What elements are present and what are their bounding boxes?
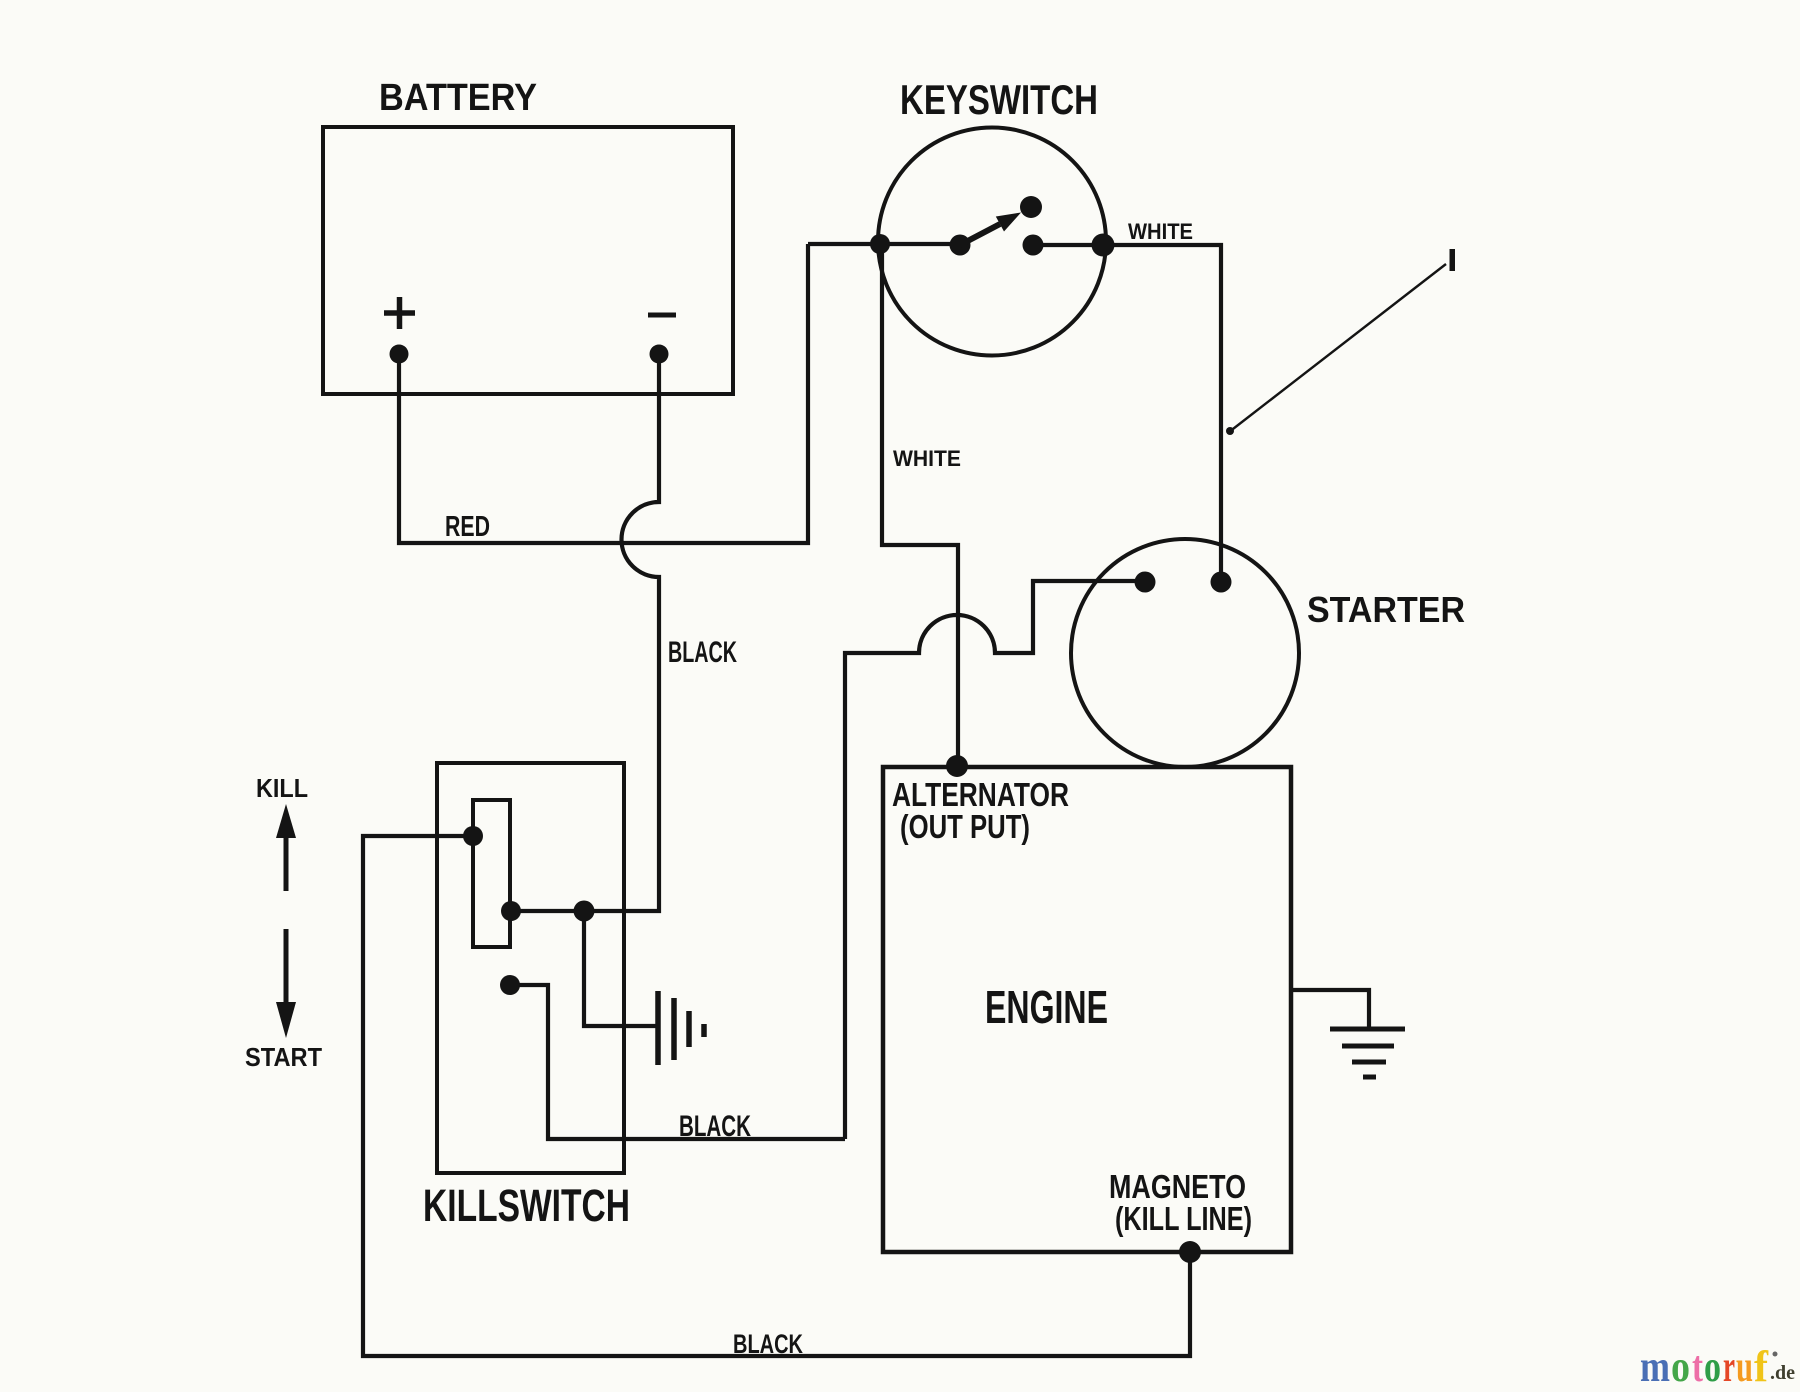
- label ENGINE: [985, 981, 1108, 1033]
- wire keyswitch right to starter terminal (WHITE): [1033, 245, 1221, 582]
- label RED: [445, 511, 490, 543]
- svg-text:KILLSWITCH: KILLSWITCH: [423, 1180, 630, 1231]
- killswitch inner contact rectangle: [473, 800, 510, 947]
- battery minus symbol: [648, 313, 676, 318]
- wire BLACK battery- to killswitch (hops over red wire): [511, 354, 659, 911]
- starter M1 circle: [1071, 539, 1299, 767]
- label WHITE (middle): [893, 446, 961, 471]
- keyswitch contact node pivot: [950, 235, 971, 256]
- wire WHITE keyswitch to alternator output: [882, 244, 958, 766]
- wire RED battery+ to keyswitch: [399, 244, 808, 543]
- svg-text:BATTERY: BATTERY: [379, 77, 537, 119]
- ground (engine, earth symbol): [1330, 1029, 1405, 1077]
- battery positive terminal node: [390, 345, 409, 364]
- svg-text:(OUT PUT): (OUT PUT): [900, 808, 1030, 845]
- starter terminal node left: [1135, 572, 1156, 593]
- svg-text:WHITE: WHITE: [1128, 219, 1193, 244]
- svg-text:o: o: [1704, 1342, 1721, 1391]
- label BLACK (middle): [679, 1110, 751, 1143]
- label I: [1450, 249, 1456, 271]
- wire BLACK magneto to killswitch (bottom run): [363, 836, 1190, 1356]
- magneto kill terminal node: [1179, 1241, 1201, 1263]
- svg-text:WHITE: WHITE: [893, 446, 961, 471]
- label MAGNETO: [1109, 1168, 1246, 1205]
- svg-text:STARTER: STARTER: [1307, 589, 1465, 630]
- keyswitch lever arm with arrowhead: [960, 213, 1021, 246]
- ground (killswitch, bar style): [658, 991, 704, 1065]
- wire BLACK killswitch kill line: [510, 985, 845, 1139]
- label BATTERY: [379, 77, 537, 119]
- svg-text:BLACK: BLACK: [679, 1110, 751, 1143]
- label (KILL LINE): [1115, 1200, 1252, 1237]
- battery plus symbol: [384, 297, 415, 329]
- motoruf.de logo: [1640, 1342, 1795, 1391]
- keyswitch contact node middle: [1023, 235, 1044, 256]
- arrow down (start direction): [276, 929, 296, 1038]
- wire killswitch riser to starter left terminal (hops over white wire): [845, 581, 1145, 1139]
- svg-text:r: r: [1723, 1342, 1735, 1391]
- svg-text:t: t: [1692, 1342, 1703, 1391]
- pointer line to white wire: [1226, 264, 1446, 435]
- battery negative terminal node: [650, 345, 669, 364]
- svg-text:KILL: KILL: [256, 773, 308, 803]
- battery B1 box: [323, 127, 733, 394]
- wire into keyswitch left: [808, 242, 960, 246]
- killswitch node B (battery black): [501, 901, 521, 921]
- label BLACK (bottom): [733, 1329, 803, 1359]
- killswitch node D (kill line): [500, 975, 520, 995]
- label WHITE (top): [1128, 219, 1193, 244]
- label BLACK (battery wire): [668, 636, 737, 669]
- label START: [245, 1042, 322, 1072]
- keyswitch S1 circle: [878, 128, 1106, 356]
- wire killswitch junction to ground: [584, 911, 656, 1026]
- killswitch node A (kill input): [463, 826, 483, 846]
- killswitch junction node C: [574, 901, 595, 922]
- label ALTERNATOR: [892, 776, 1069, 813]
- svg-text:ENGINE: ENGINE: [985, 981, 1108, 1033]
- label KEYSWITCH: [900, 76, 1098, 123]
- label STARTER: [1307, 589, 1465, 630]
- svg-text:u: u: [1736, 1342, 1753, 1391]
- label (OUT PUT): [900, 808, 1030, 845]
- svg-text:o: o: [1671, 1342, 1690, 1391]
- keyswitch contact node left: [870, 234, 890, 254]
- svg-text:RED: RED: [445, 511, 490, 543]
- svg-text:KEYSWITCH: KEYSWITCH: [900, 76, 1098, 123]
- engine E1 box: [883, 767, 1291, 1252]
- svg-text:BLACK: BLACK: [668, 636, 737, 669]
- svg-text:START: START: [245, 1042, 322, 1072]
- svg-text:f: f: [1754, 1342, 1769, 1391]
- alternator output junction node: [946, 755, 968, 777]
- svg-text:BLACK: BLACK: [733, 1329, 803, 1359]
- label KILL: [256, 773, 308, 803]
- keyswitch contact node right: [1092, 234, 1115, 257]
- engine ground stub wire: [1291, 990, 1369, 1029]
- keyswitch contact node upper: [1020, 196, 1042, 218]
- label KILLSWITCH: [423, 1180, 630, 1231]
- svg-text:.de: .de: [1770, 1362, 1795, 1384]
- arrow up (kill direction): [276, 804, 296, 891]
- svg-text:m: m: [1640, 1342, 1670, 1391]
- starter terminal node right: [1211, 572, 1232, 593]
- killswitch S2 box: [437, 763, 624, 1173]
- svg-text:(KILL LINE): (KILL LINE): [1115, 1200, 1252, 1237]
